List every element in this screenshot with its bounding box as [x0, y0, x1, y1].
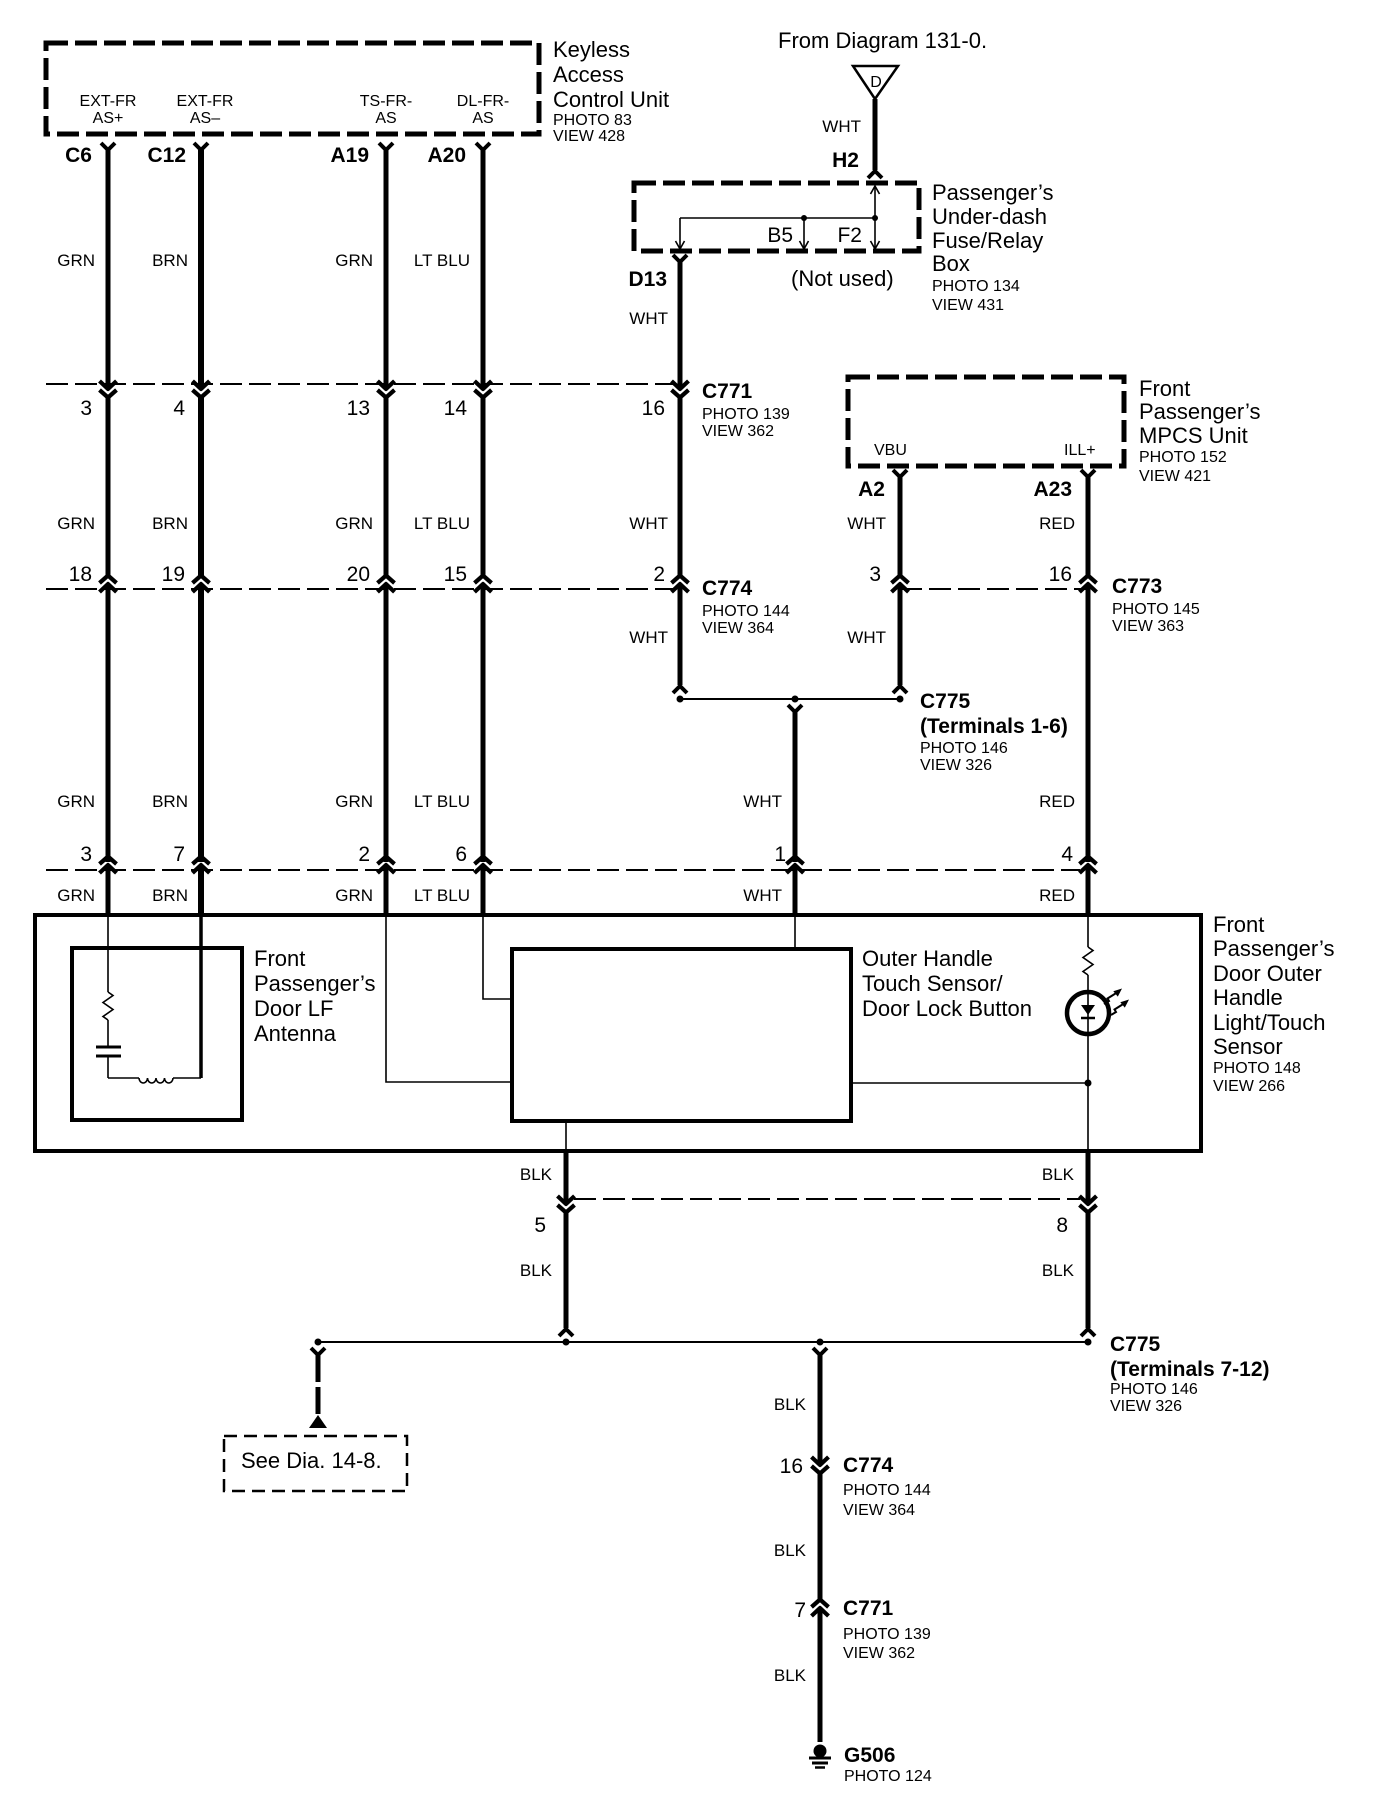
arrow to B5 (not used) — [803, 218, 805, 249]
wire GRN segment C774 to door connector row — [106, 585, 111, 862]
svg-text:GRN: GRN — [57, 886, 95, 905]
connector C771 crossing pin 4 — [193, 381, 210, 389]
LED lamp circle — [1067, 992, 1109, 1034]
off-page triangle to Dia 14-8 — [309, 1415, 327, 1428]
svg-text:Passenger’s: Passenger’s — [1213, 936, 1334, 961]
svg-text:C771: C771 — [702, 380, 753, 403]
svg-text:16: 16 — [1049, 563, 1072, 586]
svg-text:GRN: GRN — [335, 886, 373, 905]
svg-text:PHOTO 139: PHOTO 139 — [843, 1626, 931, 1643]
connector C771 crossing pin 14 — [475, 381, 492, 389]
svg-text:BLK: BLK — [774, 1666, 807, 1685]
svg-text:WHT: WHT — [847, 514, 886, 533]
svg-text:15: 15 — [444, 563, 467, 586]
connector C771 pin 7 crossing — [812, 1608, 829, 1616]
svg-text:2: 2 — [653, 563, 665, 586]
svg-text:WHT: WHT — [629, 309, 668, 328]
svg-text:BRN: BRN — [152, 886, 188, 905]
wire GRN segment into door unit — [384, 866, 389, 917]
svg-text:18: 18 — [69, 563, 92, 586]
svg-text:3: 3 — [869, 563, 881, 586]
svg-text:LT BLU: LT BLU — [414, 886, 470, 905]
svg-text:WHT: WHT — [629, 628, 668, 647]
svg-text:GRN: GRN — [335, 514, 373, 533]
C773 pin 3 crossing — [892, 584, 909, 592]
svg-text:Outer Handle: Outer Handle — [862, 946, 993, 971]
wire GRN column x=386 segment keyless box to C771 row — [379, 143, 393, 150]
junction node LED/touch sensor — [1085, 1080, 1092, 1087]
fuse box internal bus wire — [680, 217, 875, 219]
Keyless Access Control Unit box — [46, 43, 539, 134]
wire WHT from triangle to H2 — [873, 99, 878, 170]
C773 pin 16 crossing — [1080, 584, 1097, 592]
svg-text:BLK: BLK — [774, 1395, 807, 1414]
antenna feed wire — [107, 915, 109, 992]
svg-text:20: 20 — [347, 563, 370, 586]
wire BLK C774 to C771 — [818, 1472, 823, 1600]
wire touch sensor to LED junction — [851, 1082, 1088, 1084]
wire GRN segment C774 to door connector row — [384, 585, 389, 862]
wire GRN segment C771 to C774 row — [384, 396, 389, 578]
capacitor in antenna — [96, 1046, 121, 1049]
LED light emission arrows — [1104, 994, 1116, 1005]
svg-text:AS+: AS+ — [93, 110, 124, 127]
svg-text:VIEW 421: VIEW 421 — [1139, 468, 1211, 485]
C775 junction bus line — [680, 698, 900, 700]
svg-text:C771: C771 — [843, 1597, 894, 1620]
wire RED into door unit — [1086, 866, 1091, 917]
svg-text:Sensor: Sensor — [1213, 1034, 1283, 1059]
svg-text:VIEW 326: VIEW 326 — [1110, 1398, 1182, 1415]
svg-text:A2: A2 — [858, 478, 885, 501]
connector C774 crossing pin 19 — [193, 584, 210, 592]
C774 pin 2 crossing — [672, 584, 689, 592]
svg-text:GRN: GRN — [57, 792, 95, 811]
svg-text:Control Unit: Control Unit — [553, 87, 669, 112]
svg-text:VIEW 326: VIEW 326 — [920, 757, 992, 774]
door connector crossing pin 7 — [193, 865, 210, 873]
svg-text:See Dia. 14-8.: See Dia. 14-8. — [241, 1448, 382, 1473]
connector C771 crossing pin 3 — [100, 381, 117, 389]
svg-text:RED: RED — [1039, 514, 1075, 533]
svg-text:3: 3 — [80, 397, 92, 420]
resistor for LED — [1083, 947, 1093, 975]
svg-text:16: 16 — [642, 397, 665, 420]
svg-text:WHT: WHT — [847, 628, 886, 647]
svg-text:DL-FR-: DL-FR- — [457, 93, 509, 110]
wire WHT from MPCS pin A2 — [893, 470, 907, 477]
arrow to F2 (not used) and up to H2 — [874, 186, 876, 249]
svg-text:WHT: WHT — [743, 886, 782, 905]
svg-text:4: 4 — [173, 397, 185, 420]
svg-text:GRN: GRN — [57, 251, 95, 270]
connector C774 crossing pin 18 — [100, 584, 117, 592]
svg-text:Box: Box — [932, 251, 970, 276]
connector C774 crossing pin 15 — [475, 584, 492, 592]
wire GRN pin2 into touch sensor — [386, 915, 512, 1082]
svg-text:PHOTO 134: PHOTO 134 — [932, 278, 1020, 295]
svg-text:PHOTO 144: PHOTO 144 — [702, 603, 790, 620]
wire WHT D13 from fuse box — [673, 255, 687, 262]
svg-text:LT BLU: LT BLU — [414, 251, 470, 270]
node left end — [315, 1339, 322, 1346]
Passenger's Under-dash Fuse/Relay Box — [634, 183, 919, 251]
svg-text:VIEW 364: VIEW 364 — [702, 620, 774, 637]
Front Passenger's Door LF Antenna box — [72, 948, 242, 1120]
svg-text:Passenger’s: Passenger’s — [1139, 399, 1260, 424]
connector C774 crossing pin 20 — [378, 584, 395, 592]
svg-text:B5: B5 — [767, 224, 793, 247]
svg-text:A23: A23 — [1033, 478, 1072, 501]
wire to other diagram — [311, 1348, 325, 1355]
wire LT BLU pin6 into touch sensor — [483, 915, 512, 999]
door unit connector dashed line — [46, 869, 1080, 871]
svg-text:Door LF: Door LF — [254, 996, 333, 1021]
connector C771 crossing pin 13 — [378, 381, 395, 389]
Front Passenger's Door Outer Handle Light/Touch Sensor box — [35, 915, 1201, 1151]
junction dot F2 — [872, 215, 878, 221]
svg-text:Passenger’s: Passenger’s — [932, 180, 1053, 205]
wire BLK from LED (pin 8) — [1086, 1151, 1091, 1203]
svg-text:(Terminals 1-6): (Terminals 1-6) — [920, 715, 1068, 738]
svg-text:VBU: VBU — [874, 442, 907, 459]
svg-text:BLK: BLK — [520, 1165, 553, 1184]
svg-text:VIEW 362: VIEW 362 — [702, 423, 774, 440]
svg-text:C773: C773 — [1112, 575, 1162, 598]
svg-text:Front: Front — [254, 946, 305, 971]
node right end — [1085, 1339, 1092, 1346]
node below pin5 wire — [563, 1339, 570, 1346]
wire LT BLU segment C771 to C774 row — [481, 396, 486, 578]
wire WHT into door unit — [793, 866, 798, 917]
Front Passenger's MPCS Unit box — [848, 377, 1124, 466]
wire GRN segment into door unit — [106, 866, 111, 917]
C775 row2 pin 8 crossing — [1080, 1196, 1097, 1204]
svg-text:8: 8 — [1056, 1214, 1068, 1237]
ground G506 — [814, 1745, 827, 1758]
svg-text:AS: AS — [375, 110, 396, 127]
svg-text:PHOTO 148: PHOTO 148 — [1213, 1060, 1301, 1077]
See Dia. 14-8. box — [224, 1436, 407, 1491]
svg-text:Under-dash: Under-dash — [932, 204, 1047, 229]
svg-text:14: 14 — [444, 397, 468, 420]
wire WHT C774 pin2 to C775 junction — [678, 585, 683, 685]
svg-text:BRN: BRN — [152, 251, 188, 270]
inductor coil in antenna — [139, 1078, 173, 1083]
svg-text:GRN: GRN — [57, 514, 95, 533]
svg-text:RED: RED — [1039, 886, 1075, 905]
svg-text:C774: C774 — [843, 1454, 894, 1477]
svg-text:WHT: WHT — [743, 792, 782, 811]
svg-text:VIEW 431: VIEW 431 — [932, 297, 1004, 314]
wire LT BLU column x=483 segment keyless box to C771 row — [476, 143, 490, 150]
wire WHT C771 pin16 to C774 pin2 — [678, 396, 683, 578]
svg-text:AS: AS — [472, 110, 493, 127]
svg-text:BLK: BLK — [520, 1261, 553, 1280]
svg-text:PHOTO 146: PHOTO 146 — [1110, 1381, 1198, 1398]
svg-text:AS–: AS– — [190, 110, 220, 127]
wire BRN segment C771 to C774 row — [198, 396, 204, 578]
svg-text:PHOTO 139: PHOTO 139 — [702, 406, 790, 423]
svg-text:VIEW 428: VIEW 428 — [553, 128, 625, 145]
svg-text:4: 4 — [1061, 843, 1073, 866]
wire BLK junction to C774 — [813, 1348, 827, 1355]
svg-text:PHOTO 145: PHOTO 145 — [1112, 601, 1200, 618]
svg-text:Access: Access — [553, 62, 624, 87]
LED diode symbol — [1087, 994, 1089, 1032]
svg-text:D13: D13 — [628, 268, 667, 291]
junction dot B5 — [801, 215, 807, 221]
svg-text:16: 16 — [780, 1455, 803, 1478]
svg-text:Handle: Handle — [1213, 985, 1283, 1010]
wire to inductor — [108, 1077, 139, 1079]
ground junction bus line — [318, 1341, 1088, 1343]
svg-text:VIEW 362: VIEW 362 — [843, 1645, 915, 1662]
connector C775 (7-12) dashed line — [574, 1198, 1080, 1200]
svg-text:TS-FR-: TS-FR- — [360, 93, 412, 110]
svg-text:Front: Front — [1213, 912, 1264, 937]
svg-text:A20: A20 — [427, 144, 466, 167]
svg-text:Door Outer: Door Outer — [1213, 961, 1322, 986]
svg-text:7: 7 — [173, 843, 185, 866]
svg-text:RED: RED — [1039, 792, 1075, 811]
resistor in antenna — [103, 992, 113, 1020]
svg-text:WHT: WHT — [822, 117, 861, 136]
svg-text:19: 19 — [162, 563, 185, 586]
antenna return wire BRN — [199, 915, 203, 1078]
svg-text:LT BLU: LT BLU — [414, 792, 470, 811]
C771 pin 16 crossing — [672, 381, 689, 389]
svg-text:PHOTO 152: PHOTO 152 — [1139, 449, 1227, 466]
wire WHT C773 pin3 to C775 junction — [898, 585, 903, 685]
wire BLK C771 to ground — [818, 1609, 823, 1742]
svg-text:7: 7 — [794, 1599, 806, 1622]
C775 row2 pin 5 crossing — [558, 1196, 575, 1204]
svg-text:VIEW 266: VIEW 266 — [1213, 1078, 1285, 1095]
svg-text:ILL+: ILL+ — [1064, 442, 1096, 459]
svg-text:VIEW 364: VIEW 364 — [843, 1502, 915, 1519]
wire BLK from touch sensor (pin 5) — [564, 1151, 569, 1203]
svg-text:BLK: BLK — [1042, 1165, 1075, 1184]
svg-text:13: 13 — [347, 397, 370, 420]
Outer Handle Touch Sensor / Door Lock Button box — [512, 949, 851, 1121]
svg-text:Keyless: Keyless — [553, 37, 630, 62]
connector C773 dashed line — [900, 588, 1088, 590]
wire WHT pin1 into touch sensor — [794, 915, 796, 949]
svg-text:VIEW 363: VIEW 363 — [1112, 618, 1184, 635]
door connector crossing pin 2 — [378, 865, 395, 873]
svg-text:EXT-FR: EXT-FR — [177, 93, 234, 110]
wire BRN column x=201 segment keyless box to C771 row — [194, 143, 208, 150]
svg-text:3: 3 — [80, 843, 92, 866]
wire LT BLU segment into door unit — [481, 866, 486, 917]
svg-text:GRN: GRN — [335, 792, 373, 811]
LED cathode wire to junction — [1087, 1032, 1089, 1151]
wire BRN segment into door unit — [198, 866, 204, 917]
svg-text:Front: Front — [1139, 376, 1190, 401]
arrow to D13 — [679, 218, 681, 249]
svg-text:PHOTO 146: PHOTO 146 — [920, 740, 1008, 757]
svg-text:EXT-FR: EXT-FR — [80, 93, 137, 110]
wire BRN segment C774 to door connector row — [198, 585, 204, 862]
door connector pin 1 crossing — [787, 865, 804, 873]
door connector crossing pin 3 — [100, 865, 117, 873]
svg-text:BRN: BRN — [152, 514, 188, 533]
svg-text:C775: C775 — [1110, 1333, 1161, 1356]
svg-text:D: D — [870, 74, 882, 91]
wire GRN column x=108 segment keyless box to C771 row — [101, 143, 115, 150]
svg-text:BLK: BLK — [774, 1541, 807, 1560]
node at G506 branch — [817, 1339, 824, 1346]
svg-text:Touch Sensor/: Touch Sensor/ — [862, 971, 1004, 996]
svg-text:6: 6 — [455, 843, 467, 866]
wire RED C773 pin16 down to door pin 4 — [1086, 585, 1091, 862]
svg-text:Door Lock Button: Door Lock Button — [862, 996, 1032, 1021]
door connector pin 4 crossing — [1080, 865, 1097, 873]
svg-text:LT BLU: LT BLU — [414, 514, 470, 533]
door connector crossing pin 6 — [475, 865, 492, 873]
svg-text:G506: G506 — [844, 1744, 895, 1767]
svg-text:1: 1 — [774, 843, 786, 866]
LED feed wire — [1087, 915, 1089, 947]
svg-text:PHOTO 83: PHOTO 83 — [553, 112, 632, 129]
svg-text:F2: F2 — [837, 224, 862, 247]
wire LT BLU segment C774 to door connector row — [481, 585, 486, 862]
svg-text:H2: H2 — [832, 149, 859, 172]
svg-text:Fuse/Relay: Fuse/Relay — [932, 228, 1043, 253]
svg-text:A19: A19 — [330, 144, 369, 167]
off-page triangle D — [853, 66, 898, 99]
connector C771 dashed line — [46, 383, 674, 385]
svg-text:WHT: WHT — [629, 514, 668, 533]
node at C775 pin1 wire — [792, 696, 799, 703]
svg-text:BRN: BRN — [152, 792, 188, 811]
svg-text:C775: C775 — [920, 690, 971, 713]
svg-text:PHOTO 124: PHOTO 124 — [844, 1768, 932, 1785]
node at D13 wire — [677, 696, 684, 703]
svg-text:Passenger’s: Passenger’s — [254, 971, 375, 996]
svg-text:GRN: GRN — [335, 251, 373, 270]
svg-text:BLK: BLK — [1042, 1261, 1075, 1280]
wire WHT from C775 junction to door pin 1 — [788, 705, 802, 712]
touch sensor ground output wire — [565, 1121, 567, 1151]
svg-text:Light/Touch: Light/Touch — [1213, 1010, 1326, 1035]
svg-text:C774: C774 — [702, 577, 753, 600]
connector C774 pin 16 crossing — [812, 1457, 829, 1465]
connector C774 dashed line — [46, 588, 674, 590]
wire RED from MPCS pin A23 — [1081, 470, 1095, 477]
svg-text:Antenna: Antenna — [254, 1021, 337, 1046]
svg-text:C12: C12 — [147, 144, 186, 167]
svg-text:(Terminals 7-12): (Terminals 7-12) — [1110, 1358, 1270, 1381]
svg-text:5: 5 — [534, 1214, 546, 1237]
svg-text:2: 2 — [358, 843, 370, 866]
svg-text:(Not used): (Not used) — [791, 266, 894, 291]
wire GRN segment C771 to C774 row — [106, 396, 111, 578]
svg-text:C6: C6 — [65, 144, 92, 167]
svg-text:PHOTO 144: PHOTO 144 — [843, 1482, 931, 1499]
svg-text:MPCS Unit: MPCS Unit — [1139, 423, 1248, 448]
node at A2 wire — [897, 696, 904, 703]
svg-text:From Diagram 131-0.: From Diagram 131-0. — [778, 28, 987, 53]
